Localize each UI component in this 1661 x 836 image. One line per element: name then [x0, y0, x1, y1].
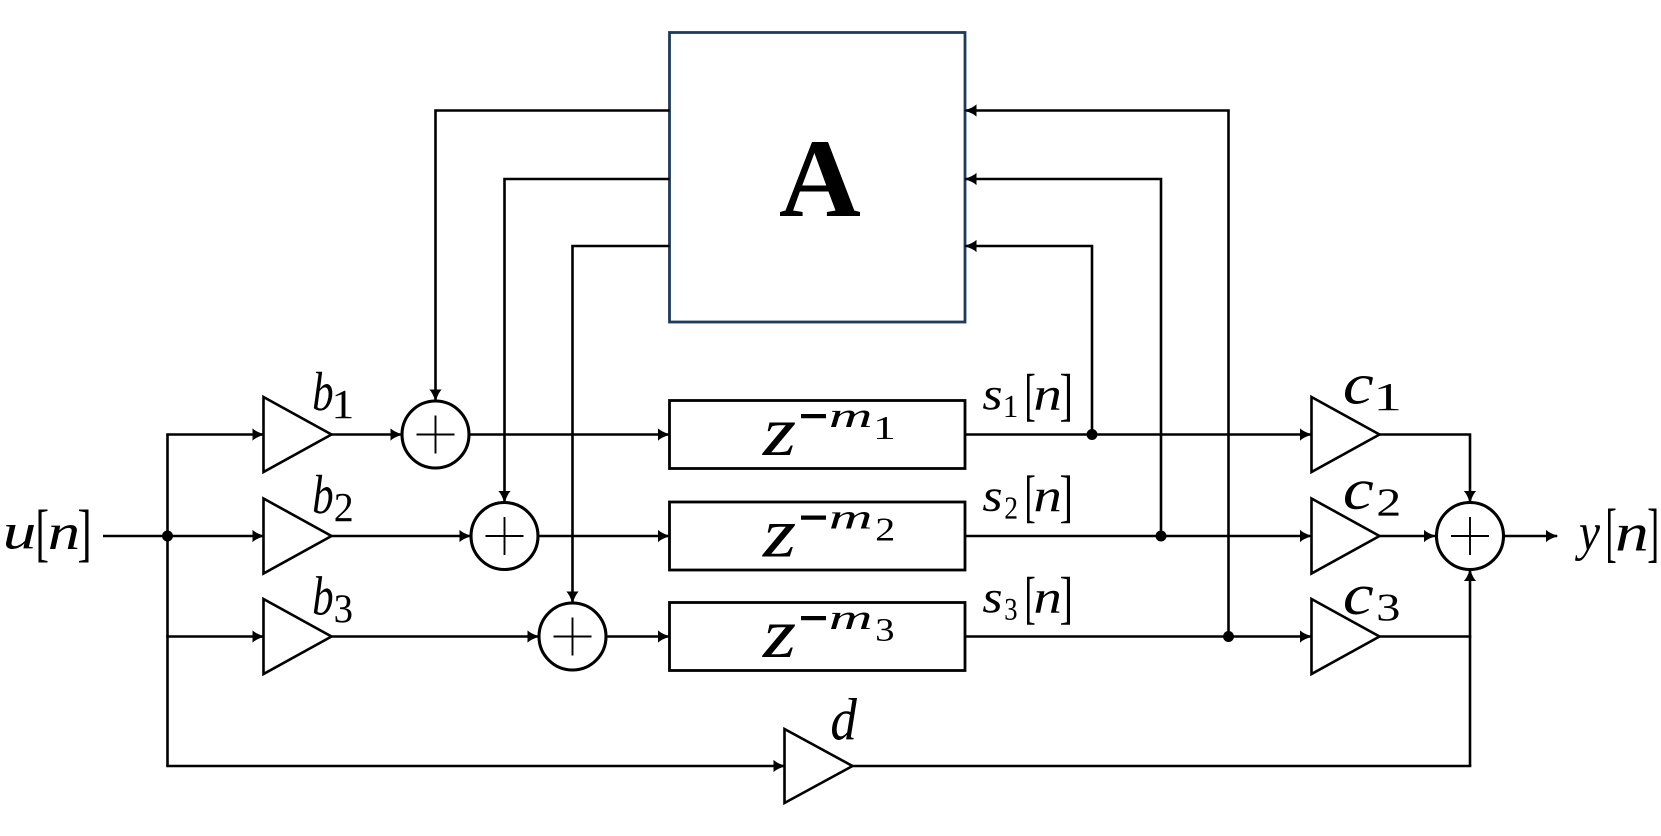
node s3 tap	[1223, 631, 1234, 642]
label z^-m2	[762, 512, 893, 557]
gain b2	[264, 499, 332, 574]
gain d	[785, 729, 853, 803]
wire branch to gain b1	[166, 433, 263, 436]
block A (state matrix)	[670, 33, 966, 323]
summing junction S2	[471, 503, 538, 570]
wire output to y[n]	[1504, 535, 1557, 538]
label y[n]	[1575, 509, 1657, 564]
label c1	[1345, 376, 1399, 410]
label b2	[314, 475, 352, 522]
wire output vertical to output sum	[1469, 570, 1472, 766]
label u[n]	[6, 510, 89, 563]
label z^-m1	[762, 411, 893, 456]
label s2[n]	[983, 475, 1070, 523]
wire u[n] input to gain b2	[103, 535, 264, 538]
gain c3	[1312, 599, 1380, 674]
gain c1	[1312, 397, 1380, 472]
wire branch to gain b3	[166, 635, 263, 638]
delay z^-m2	[670, 502, 966, 570]
gain c2	[1312, 499, 1380, 574]
wire delay2 to gain c2	[965, 535, 1311, 538]
wire c3 to output vertical	[1379, 635, 1472, 638]
wire s3 feedback into A	[966, 111, 1229, 637]
wire bottom branch to gain d	[168, 765, 785, 766]
wire input branch vertical	[166, 435, 169, 767]
wire delay3 to gain c3	[965, 635, 1311, 638]
node s2 tap	[1156, 531, 1167, 542]
wire b1 to sum S1	[332, 433, 402, 436]
wire d to output vertical	[853, 765, 1472, 768]
node s1 tap	[1087, 429, 1098, 440]
label s1[n]	[983, 374, 1070, 422]
wire sum S1 to delay z^-m1	[470, 433, 670, 436]
label c3	[1345, 587, 1399, 621]
label b1	[314, 372, 352, 419]
wire s1 feedback into A	[966, 246, 1093, 435]
summing junction S1	[402, 401, 469, 468]
delay z^-m1	[670, 401, 966, 469]
label c2	[1345, 481, 1399, 515]
gain b1	[264, 397, 332, 472]
summing junction S3	[539, 603, 606, 670]
wire sum S2 to delay z^-m2	[539, 535, 670, 538]
gain b3	[264, 599, 332, 674]
node input junction	[162, 531, 173, 542]
label s3[n]	[983, 577, 1070, 625]
label d	[832, 698, 857, 740]
wire c1 to output sum	[1379, 435, 1471, 503]
wire s2 feedback into A	[966, 179, 1162, 536]
output summing junction	[1437, 503, 1504, 570]
delay z^-m3	[670, 603, 966, 671]
wire A output 1 to sum S1	[436, 111, 670, 401]
wire delay1 to gain c1	[965, 433, 1311, 436]
label A	[780, 142, 860, 216]
label z^-m3	[762, 613, 893, 658]
wire b2 to sum S2	[332, 535, 471, 538]
wire b3 to sum S3	[332, 635, 539, 638]
wire A output 3 to sum S3	[573, 246, 670, 603]
label b3	[314, 576, 352, 623]
wire c2 to output sum	[1379, 535, 1436, 538]
wire A output 2 to sum S2	[505, 179, 670, 502]
wire sum S3 to delay z^-m3	[607, 635, 670, 638]
